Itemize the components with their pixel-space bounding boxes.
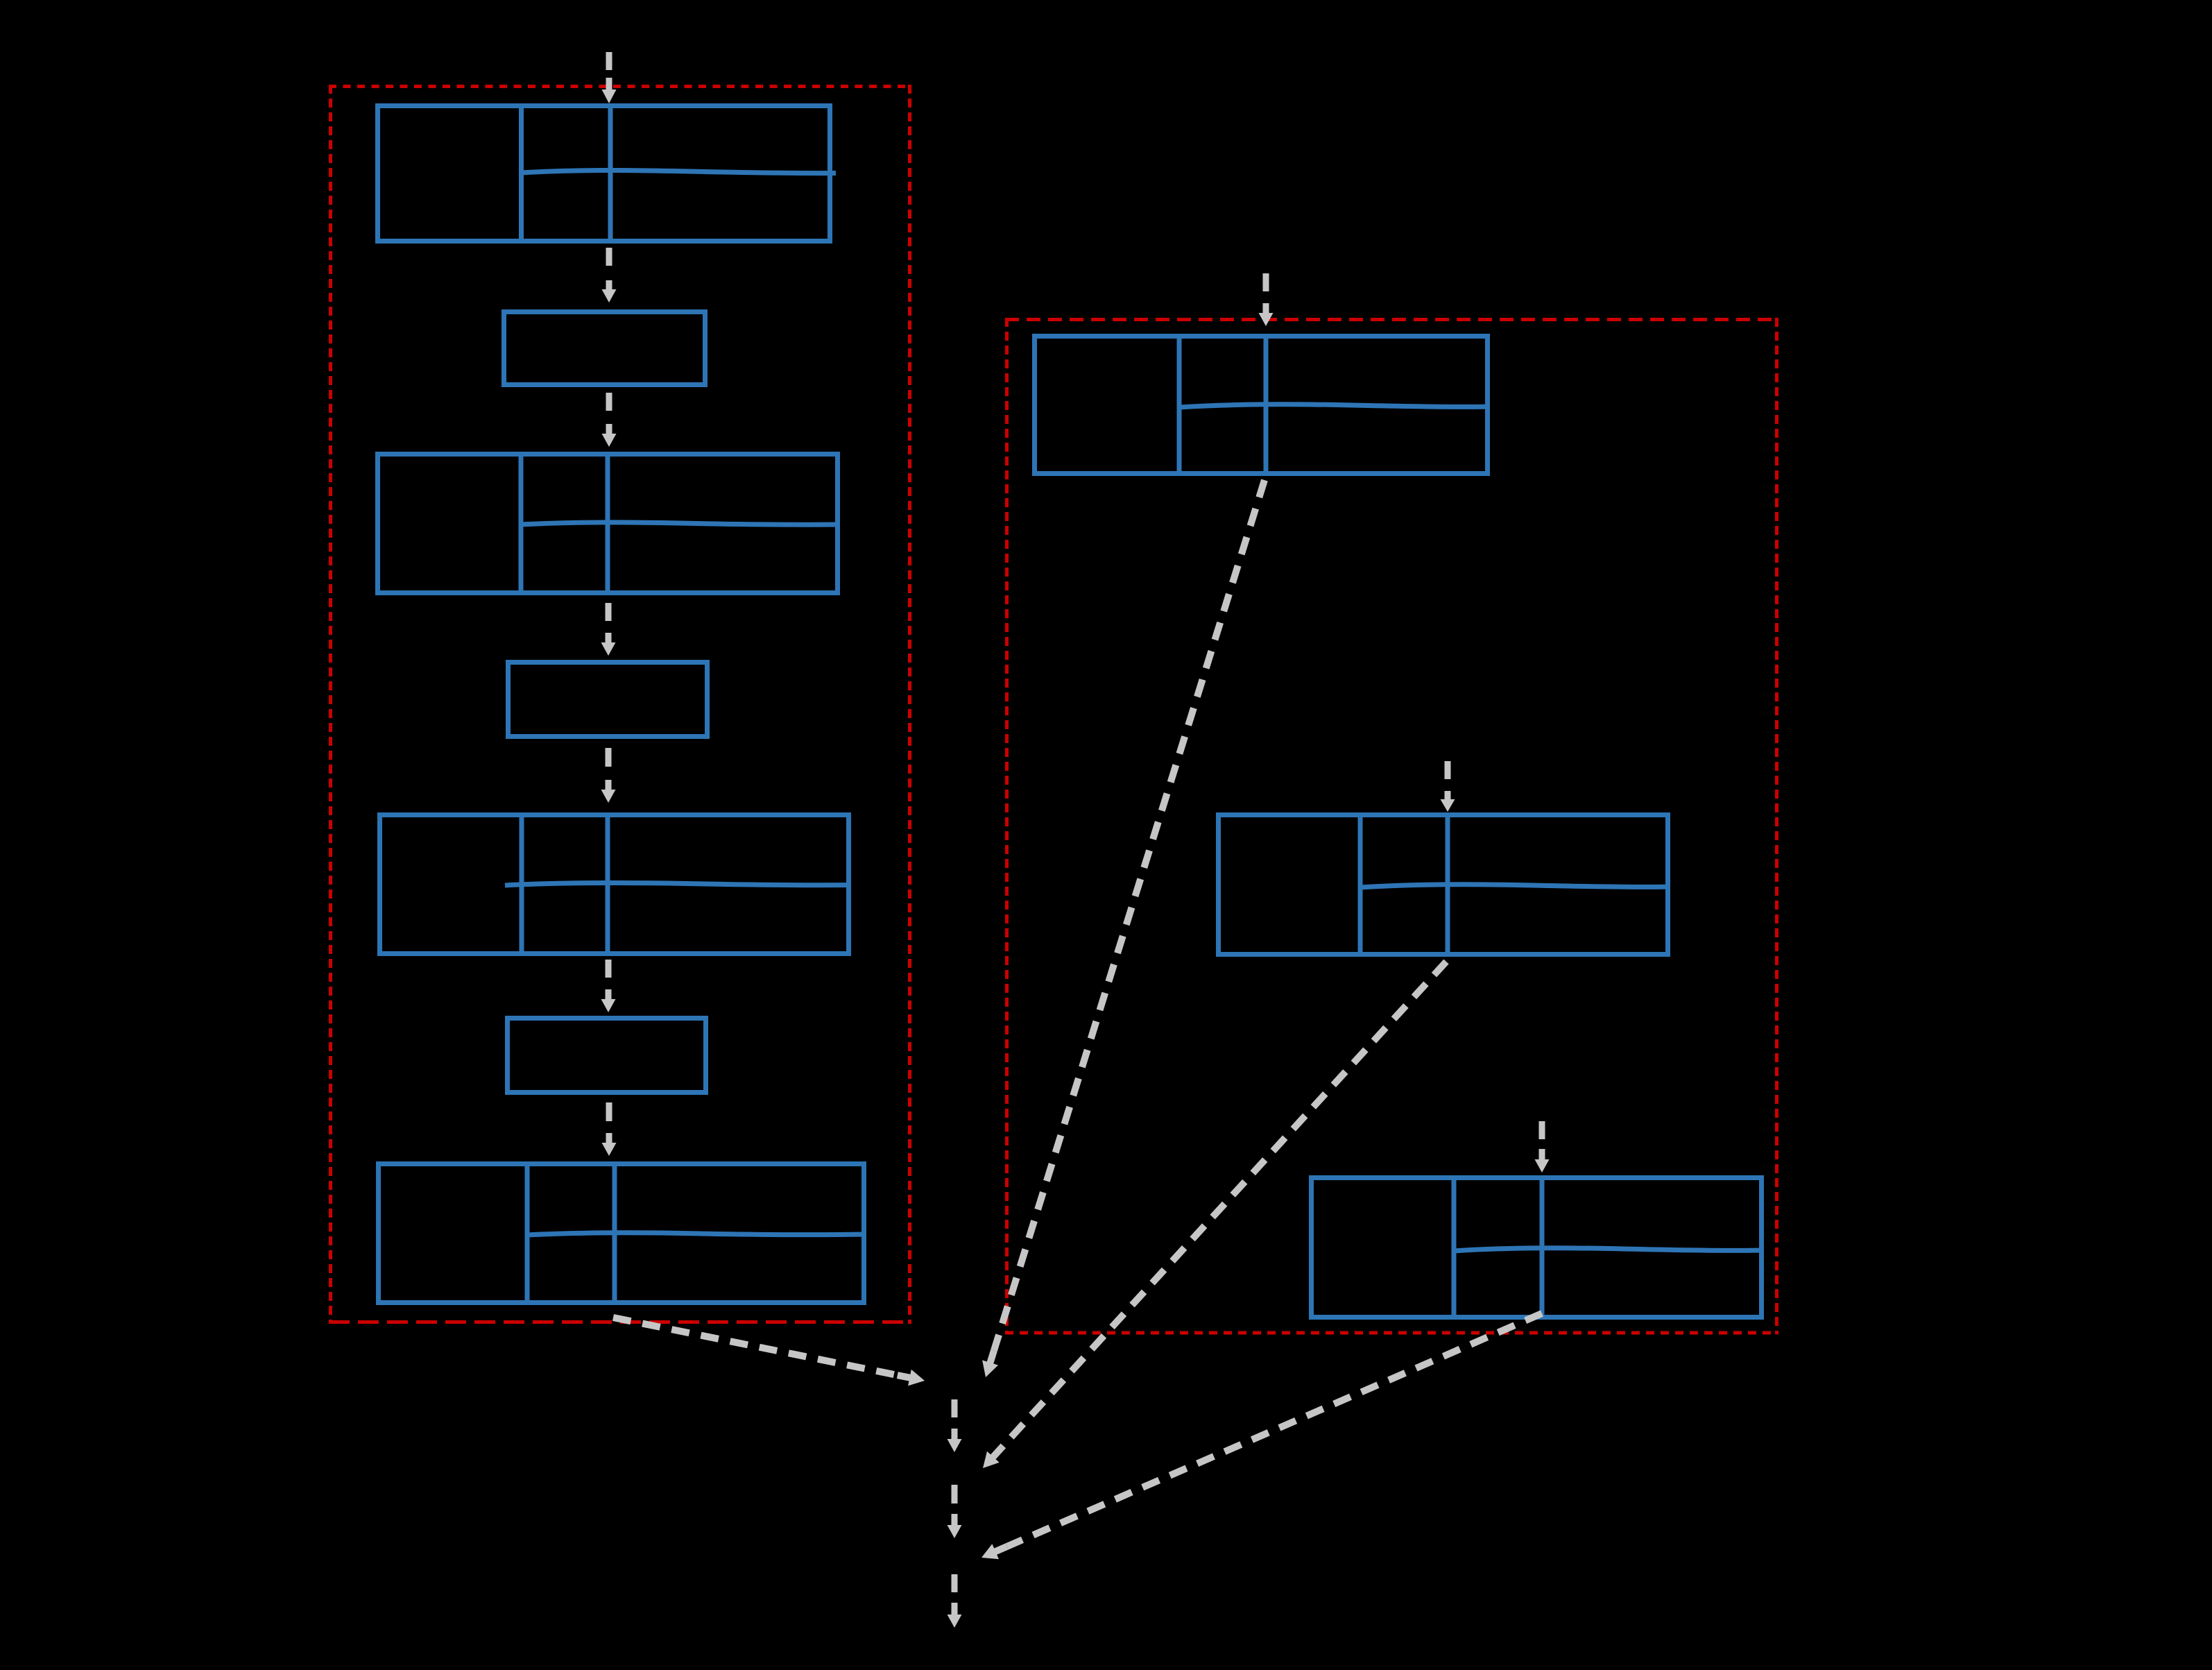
table block T3 (left column, row 5) bbox=[380, 815, 851, 954]
arrow B1 into R1 bbox=[1259, 273, 1274, 326]
connector L1: T4 bottom to merge point bbox=[613, 1318, 925, 1386]
output arrow chain segment 1 bbox=[948, 1399, 962, 1452]
small box S1 (left column, row 2) bbox=[504, 312, 705, 385]
red dashed group box: skip branch (right) bbox=[1005, 318, 1778, 1334]
output arrow chain segment 2 bbox=[948, 1485, 962, 1538]
table block T2 (left column, row 3) bbox=[378, 454, 840, 593]
arrow A6 S3 to T4 bbox=[602, 1102, 617, 1156]
table block R1 (right group, row 1) bbox=[1035, 336, 1490, 474]
small box S2 (left column, row 4) bbox=[508, 663, 708, 737]
small box S3 (left column, row 6) bbox=[508, 1019, 706, 1093]
connector L3: R2 bottom to merge point bbox=[983, 962, 1446, 1468]
arrow B2 into R2 bbox=[1441, 761, 1455, 812]
red dashed group box: encoder (left) bbox=[329, 85, 911, 1324]
connector L4: R3 bottom to merge point bbox=[981, 1313, 1542, 1559]
arrow A0 into T1 bbox=[602, 52, 617, 103]
arrow A3 T2 to S2 bbox=[601, 603, 616, 656]
table block T1 (left column, row 1) bbox=[378, 106, 837, 241]
arrow A2 S1 to T2 bbox=[602, 393, 617, 447]
table block R3 (right group, row 3) bbox=[1312, 1178, 1764, 1318]
connector L2: R1 bottom to merge point bbox=[982, 480, 1264, 1377]
output arrow chain segment 3 bbox=[948, 1574, 962, 1628]
arrow A5 T3 to S3 bbox=[601, 960, 616, 1012]
table block T4 (left column, row 7) bbox=[379, 1164, 866, 1303]
arrow A1 T1 to S1 bbox=[602, 248, 617, 303]
arrow A4 S2 to T3 bbox=[601, 748, 616, 803]
arrow B3 into R3 bbox=[1535, 1121, 1550, 1173]
table block R2 (right group, row 2) bbox=[1219, 815, 1670, 955]
